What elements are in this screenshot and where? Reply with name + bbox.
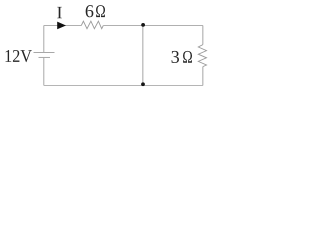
label ohm symbol of R2 <box>183 51 192 63</box>
current arrow I on top rail <box>57 22 66 30</box>
wire: right branch lower (3-ohm to bottom-right corner) <box>202 67 204 86</box>
wire: top rail right segment (6-ohm to top-right corner) <box>103 25 203 27</box>
node A junction dot (top of middle branch) <box>141 23 145 27</box>
wire: left branch upper (top-left corner down to battery plate) <box>43 26 45 53</box>
wire: right branch upper (top-right corner to 3-ohm resistor) <box>202 26 204 45</box>
resistor R2 3-ohm vertical zigzag <box>198 45 206 67</box>
label 3 (value of R2) <box>172 51 179 63</box>
wire: top rail left segment (top-left corner to 6-ohm resistor) <box>44 25 82 27</box>
node B junction dot (bottom of middle branch) <box>141 82 145 86</box>
wire: middle branch <box>142 26 144 86</box>
label I (current) <box>57 7 62 18</box>
battery V1 negative plate (short) <box>39 56 51 58</box>
label 6 (value of R1) <box>86 5 94 17</box>
battery V1 positive plate (long) <box>34 51 55 53</box>
label ohm symbol of R1 <box>96 5 105 17</box>
wire: bottom rail <box>44 84 203 86</box>
resistor R1 6-ohm zigzag <box>81 21 103 29</box>
wire: left branch lower (battery to bottom-left corner) <box>43 58 45 86</box>
label 12V source value <box>6 50 32 62</box>
